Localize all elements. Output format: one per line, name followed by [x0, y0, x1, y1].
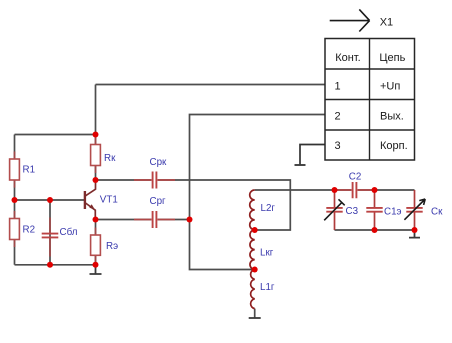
svg-text:C2: C2	[349, 172, 362, 183]
svg-text:Корп.: Корп.	[380, 140, 408, 152]
svg-text:C3: C3	[346, 206, 359, 217]
svg-text:Rк: Rк	[104, 153, 116, 164]
svg-text:L1г: L1г	[260, 282, 275, 293]
svg-text:2: 2	[335, 110, 341, 122]
node: C2 left junction	[332, 187, 338, 193]
ground: L1g ground	[249, 317, 261, 319]
capacitor C1e	[366, 190, 401, 230]
svg-text:VT1: VT1	[100, 195, 118, 206]
svg-text:3: 3	[335, 140, 341, 152]
transistor VT1	[85, 181, 118, 220]
inductor Lkg	[250, 230, 274, 270]
svg-text:Срг: Срг	[150, 196, 167, 207]
inductor L2g	[250, 190, 276, 230]
capacitor Crg	[134, 196, 175, 228]
capacitor Cbl	[42, 218, 78, 257]
wire: collector row right of Crk to L2g bottom	[158, 180, 291, 230]
svg-text:R1: R1	[23, 165, 36, 176]
wire: output vertical to connector pin 2	[190, 115, 326, 270]
svg-text:+Uп: +Uп	[380, 81, 400, 93]
node: Ck bottom junction	[412, 227, 418, 233]
capacitor C2	[336, 172, 373, 199]
wire: L2g top to tank circuit	[255, 189, 335, 191]
wire: emitter row left of Crg	[96, 219, 152, 221]
ground: emitter ground	[90, 265, 102, 274]
svg-text:Конт.: Конт.	[335, 52, 360, 64]
wire: collector row left of Crk	[96, 179, 152, 181]
wire: +Up supply rail to connector pin 1	[96, 84, 326, 86]
svg-text:Цепь: Цепь	[379, 52, 405, 64]
wire: tank top rail with C2 gap	[335, 189, 415, 191]
wire: L1g bottom stem	[254, 309, 256, 318]
svg-text:C1э: C1э	[384, 207, 402, 218]
node: emitter junction	[93, 217, 99, 223]
node: Crg output junction	[187, 217, 193, 223]
ground: connector pin 3 ground	[295, 164, 306, 166]
capacitor Crk	[134, 157, 175, 189]
svg-text:1: 1	[335, 81, 341, 93]
wire: base wire to VT1	[15, 199, 85, 201]
capacitor Ck variable	[404, 190, 443, 230]
wire: emitter row right of Crg	[158, 219, 190, 221]
inductor L1g	[251, 270, 275, 309]
node: Cbl bottom junction	[47, 262, 53, 268]
svg-text:Ск: Ск	[431, 207, 443, 218]
resistor R2	[10, 211, 35, 247]
wire: connector pin 3 stub	[300, 145, 325, 165]
wire: Rk bottom to collector node	[95, 165, 97, 180]
wire: supply vertical drop to Rk top	[95, 85, 97, 145]
resistor Rk	[91, 137, 116, 173]
svg-text:L2г: L2г	[261, 203, 276, 214]
node: C2 right junction	[372, 187, 378, 193]
node: Re bottom junction	[93, 262, 99, 268]
node: collector junction	[93, 177, 99, 183]
wire: bottom left rail	[15, 264, 96, 266]
node: base junction	[12, 197, 18, 203]
resistor Re	[91, 228, 118, 263]
connector X1 arrow	[330, 9, 393, 31]
wire: Cbl branch vertical	[49, 200, 51, 265]
wire: emitter to Re	[95, 220, 97, 236]
connector X1 table	[325, 39, 415, 161]
svg-text:Rэ: Rэ	[106, 241, 118, 252]
svg-text:R2: R2	[23, 225, 36, 236]
svg-text:Lкг: Lкг	[260, 248, 274, 259]
wire: R1 top to supply vertical	[15, 134, 96, 136]
node: Lkg-L1g junction	[252, 267, 258, 273]
node: C1e bottom junction	[372, 227, 378, 233]
wire: tank bottom rail	[335, 229, 415, 231]
svg-text:Срк: Срк	[150, 157, 168, 168]
svg-text:X1: X1	[380, 17, 393, 29]
wire: left vertical through R1 and R2	[14, 135, 16, 265]
wire: Re bottom	[95, 255, 97, 265]
node: L2g-Lkg junction	[252, 227, 258, 233]
node: Cbl top junction	[47, 197, 53, 203]
capacitor C3 trimmer	[324, 190, 358, 230]
node: R1 top junction	[93, 132, 99, 138]
svg-text:Сбл: Сбл	[60, 227, 78, 238]
ground: Ck ground	[409, 230, 420, 238]
svg-text:Вых.: Вых.	[380, 110, 404, 122]
resistor R1	[10, 152, 35, 188]
